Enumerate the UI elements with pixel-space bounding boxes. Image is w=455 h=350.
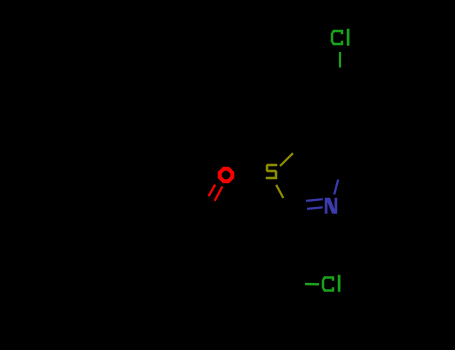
bond C2=N lower line (blue half) xyxy=(307,207,323,209)
bond Cl-C5 (green half) xyxy=(339,52,341,68)
bond C=O main line (red half) xyxy=(215,187,223,201)
atom label N (thiazole nitrogen) xyxy=(325,198,337,214)
bond S-C7a (olive half, up-right) xyxy=(280,153,293,166)
atom label Cl (5-chloro, top) xyxy=(331,29,349,46)
atom label S (thiazole sulfur) xyxy=(266,164,277,179)
atom label Cl (2-chloro on phenyl, lower) xyxy=(322,275,340,292)
bond C2=N upper line (blue half) xyxy=(306,199,323,201)
bond C=O second line (red half) xyxy=(209,185,216,197)
atom label O (carbonyl oxygen) xyxy=(218,167,234,183)
bond S-C2 (olive half, down-right) xyxy=(276,185,283,198)
bond C-Cl (green half, horizontal) xyxy=(305,283,319,286)
bond N-C3a (blue half, up-right) xyxy=(334,180,338,195)
